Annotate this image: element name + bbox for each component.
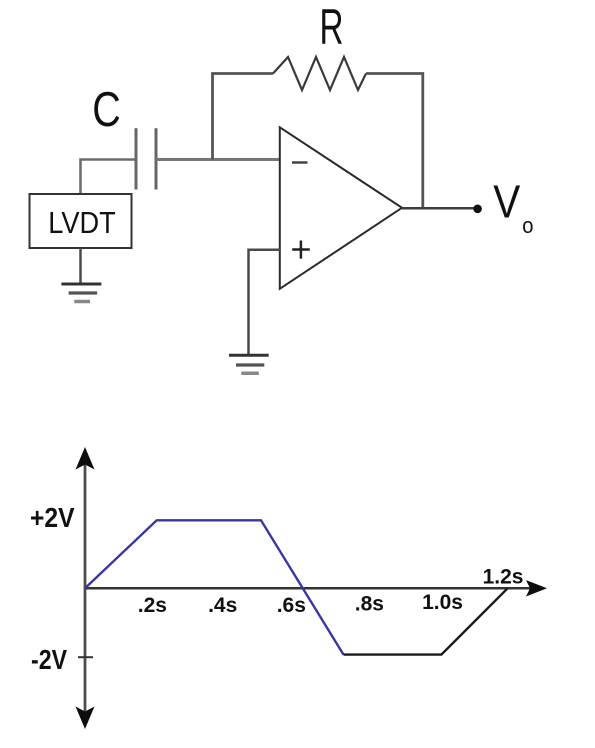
wire output	[402, 207, 474, 210]
svg-text:.8s: .8s	[355, 593, 384, 616]
svg-text:+2V: +2V	[30, 502, 75, 533]
svg-text:.4s: .4s	[208, 594, 237, 617]
node output dot	[473, 205, 482, 214]
svg-text:1.2s: 1.2s	[483, 566, 524, 589]
tick -2V	[78, 656, 93, 658]
svg-text:V: V	[493, 176, 520, 228]
x-axis	[85, 580, 547, 596]
wire LVDT top to capacitor	[81, 160, 137, 195]
wire LVDT to ground	[79, 248, 82, 284]
svg-text:LVDT: LVDT	[48, 206, 116, 240]
wire feedback left (node to resistor)	[213, 74, 274, 160]
svg-text:-2V: -2V	[31, 644, 67, 675]
LVDT source block	[30, 194, 132, 248]
svg-text:1.0s: 1.0s	[422, 591, 463, 614]
svg-text:R: R	[320, 0, 344, 55]
ground (op-amp)	[229, 355, 269, 373]
svg-text:.6s: .6s	[277, 594, 306, 617]
waveform black segment	[344, 588, 508, 654]
op-amp U1	[280, 127, 402, 288]
svg-text:o: o	[522, 213, 533, 238]
resistor R	[273, 57, 366, 90]
capacitor C	[136, 128, 156, 189]
wire noninverting input	[249, 250, 281, 355]
wire capacitor to inverting input (node at feedback junction)	[156, 158, 280, 161]
svg-text:.2s: .2s	[138, 594, 167, 617]
label Vo	[493, 176, 533, 239]
y-axis	[76, 447, 95, 729]
ground (LVDT)	[61, 284, 101, 302]
svg-text:C: C	[92, 83, 121, 137]
waveform blue segment	[85, 520, 344, 654]
wire feedback right (resistor to output)	[366, 74, 423, 208]
